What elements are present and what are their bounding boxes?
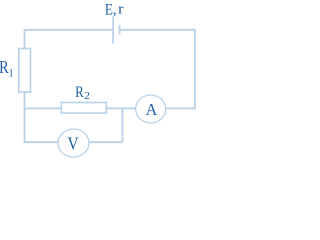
label E, r bbox=[105, 1, 125, 19]
wire R2 to ammeter bbox=[106, 107, 135, 109]
resistor R2 bbox=[61, 103, 106, 114]
wire branch to R2 bbox=[25, 107, 62, 109]
wire top-left: left rail down to R1 top, across to battery bbox=[25, 30, 113, 49]
ammeter A bbox=[136, 95, 166, 123]
svg-text:R: R bbox=[75, 84, 84, 102]
label R2 bbox=[75, 84, 90, 102]
battery E, r bbox=[113, 17, 120, 44]
svg-text:V: V bbox=[67, 134, 78, 154]
svg-text:1: 1 bbox=[9, 66, 14, 79]
svg-text:A: A bbox=[146, 99, 158, 118]
wire junction drop to voltmeter loop bbox=[122, 108, 124, 142]
label R1 bbox=[0, 59, 13, 80]
svg-text:R: R bbox=[0, 59, 9, 78]
wire top-right: battery to right rail down to ammeter level bbox=[120, 30, 195, 109]
wire voltmeter to junction riser bbox=[89, 141, 123, 143]
voltmeter V bbox=[58, 129, 89, 157]
resistor R1 bbox=[19, 49, 31, 93]
svg-text:2: 2 bbox=[84, 91, 90, 102]
svg-text:,: , bbox=[113, 1, 117, 18]
wire left rail: R1 bottom down to bottom-left corner, to voltmeter bbox=[25, 92, 59, 142]
svg-text:r: r bbox=[118, 1, 124, 17]
